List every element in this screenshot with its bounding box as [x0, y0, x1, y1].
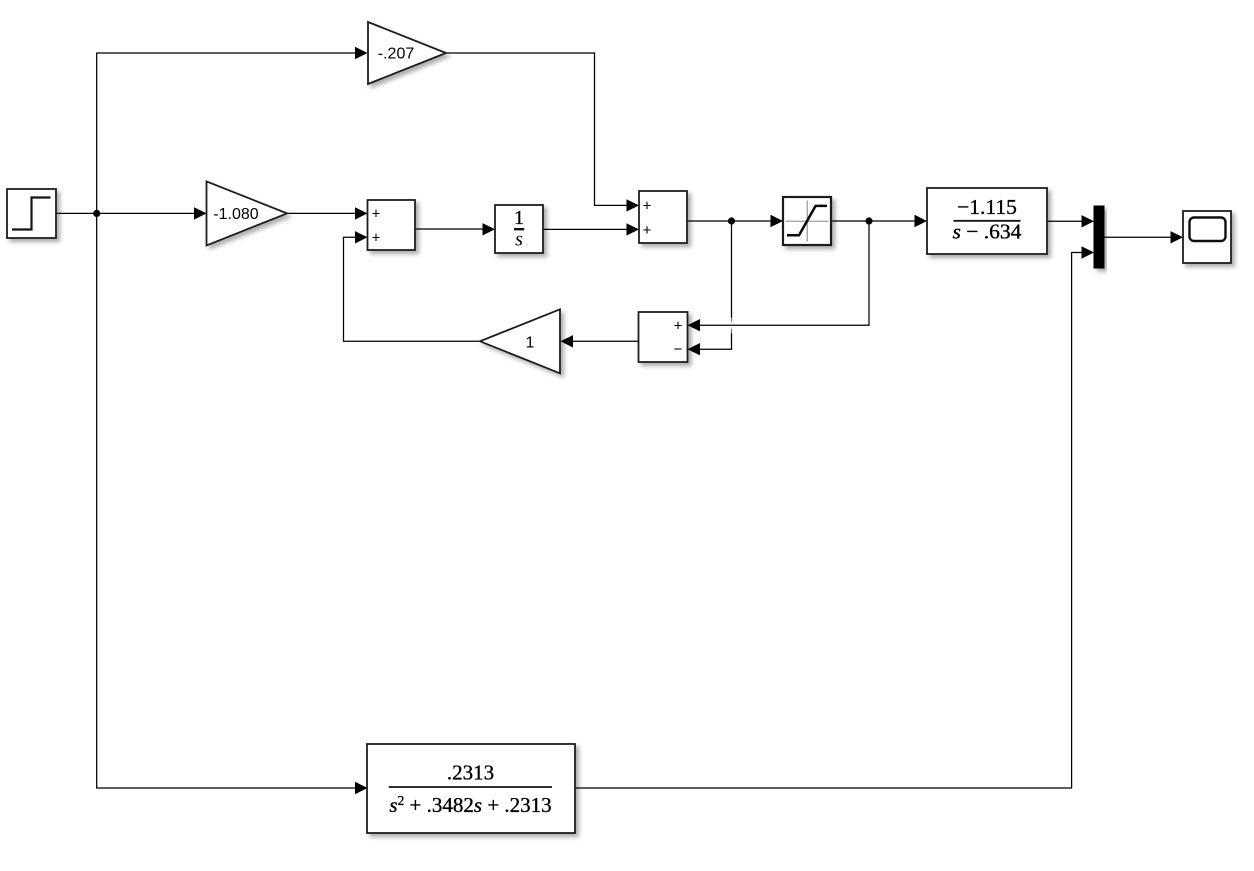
svg-text:+: +	[372, 229, 381, 246]
svg-text:s − .634: s − .634	[953, 220, 1022, 244]
svg-text:1: 1	[514, 207, 524, 229]
svg-text:−: −	[674, 341, 683, 358]
svg-text:-.207: -.207	[378, 46, 415, 63]
svg-text:+: +	[674, 317, 683, 334]
svg-text:-1.080: -1.080	[213, 206, 258, 223]
svg-text:s: s	[515, 229, 523, 251]
svg-text:+: +	[643, 222, 652, 239]
svg-text:s2 + .3482s + .2313: s2 + .3482s + .2313	[389, 793, 551, 817]
svg-text:.2313: .2313	[447, 761, 494, 785]
svg-text:1: 1	[526, 335, 535, 352]
svg-text:−1.115: −1.115	[957, 195, 1017, 219]
svg-text:+: +	[643, 197, 652, 214]
svg-text:+: +	[372, 205, 381, 222]
